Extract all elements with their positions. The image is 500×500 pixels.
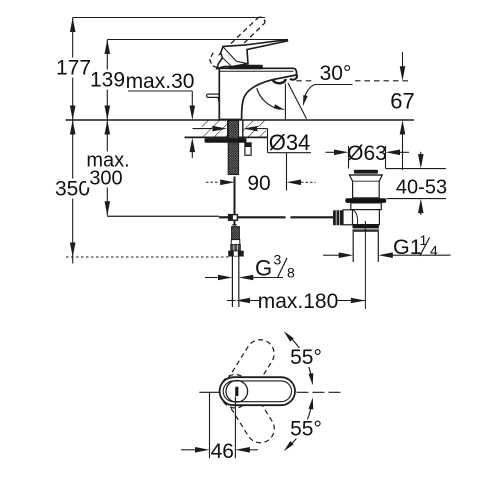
svg-text:139: 139 [90, 69, 125, 92]
svg-text:300: 300 [89, 168, 122, 190]
svg-text:55°: 55° [290, 418, 322, 441]
svg-text:67: 67 [390, 89, 414, 114]
svg-text:Ø63: Ø63 [347, 142, 387, 165]
svg-text:177: 177 [56, 57, 91, 80]
svg-text:G: G [255, 256, 272, 281]
svg-text:3: 3 [274, 252, 282, 268]
svg-text:Ø34: Ø34 [269, 130, 311, 155]
svg-text:30°: 30° [320, 62, 352, 85]
svg-text:46: 46 [211, 440, 234, 463]
svg-text:max.30: max.30 [126, 70, 195, 93]
svg-text:55°: 55° [290, 346, 322, 369]
svg-text:8: 8 [287, 265, 295, 281]
svg-text:G1: G1 [393, 235, 422, 259]
svg-text:350: 350 [55, 178, 90, 201]
svg-text:90: 90 [247, 172, 270, 195]
svg-text:4: 4 [430, 243, 438, 259]
svg-text:max.180: max.180 [258, 290, 339, 313]
svg-text:1: 1 [420, 232, 428, 248]
svg-text:40-53: 40-53 [396, 177, 447, 199]
